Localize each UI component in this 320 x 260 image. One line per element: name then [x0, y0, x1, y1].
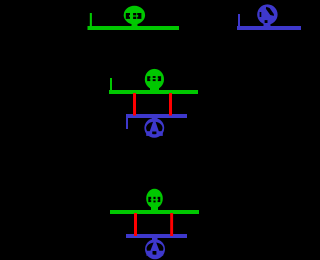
AC source V1 body (green disc)	[124, 6, 145, 25]
wire: left stub of blue rail 4 (downwards)	[126, 118, 128, 130]
wire: left stub of blue rail 2	[238, 14, 240, 26]
V1 glyph: left counter gap	[126, 13, 130, 19]
wire: blue rail 2 horizontal	[237, 26, 301, 30]
I2 ring bottom-right fill	[156, 131, 162, 136]
AC source V2 body (green disc)	[145, 69, 164, 90]
wire: left stub of green rail 1	[90, 13, 92, 27]
V2 glyph: right counter gap	[158, 76, 161, 81]
I3 ring bottom-left fill	[146, 251, 152, 256]
I1 glyph: diagonal gap along arrowhead	[266, 7, 274, 16]
wire: green rail 3 horizontal	[109, 90, 198, 94]
node: stem joining rail 6 to source I3	[152, 238, 158, 242]
I2 glyph: dark core	[146, 122, 162, 134]
resistor R1 (left red link)	[133, 93, 136, 116]
current source I1 body (blue disc)	[257, 4, 277, 24]
current source I2 body (blue disc)	[144, 118, 164, 138]
V1 glyph: upper counter dot	[133, 13, 136, 15]
wire: blue rail 6 horizontal	[126, 234, 187, 238]
node: stem joining source I1 to rail 2	[264, 24, 271, 28]
V1 glyph: lower counter dot	[133, 17, 136, 19]
I3 ring bottom-right fill	[156, 251, 163, 256]
resistor R4 (right red link)	[170, 213, 173, 236]
node: stem joining source V1 to rail 1	[132, 23, 138, 28]
V3 glyph: upper counter dot	[153, 197, 155, 199]
node: stem joining source V3 to rail 5	[151, 206, 158, 212]
I3 arrow head	[150, 242, 159, 251]
V3 glyph: lower counter dot	[153, 201, 155, 203]
V3 glyph: right counter gap	[158, 197, 161, 202]
V1 glyph: right counter gap	[137, 13, 141, 19]
wire: blue rail 4 horizontal	[126, 114, 187, 118]
wire: left stub of green rail 3	[110, 78, 112, 91]
V3 glyph: left counter gap	[148, 197, 151, 202]
I1 glyph: lower shaft gap dot	[265, 20, 268, 23]
I1 glyph: left sliver gap	[260, 12, 262, 17]
I2 arrow head	[150, 121, 159, 131]
resistor R3 (left red link)	[134, 213, 137, 236]
wire: green rail 5 horizontal	[110, 210, 199, 214]
I3 glyph: dark core	[147, 243, 164, 255]
V2 glyph: upper counter dot	[153, 76, 156, 78]
wire: green rail 1 horizontal	[88, 26, 180, 30]
node: stem joining source V2 to rail 3	[150, 87, 159, 92]
V2 glyph: left counter gap	[147, 76, 150, 81]
AC source V3 body (green disc)	[146, 189, 163, 208]
current source I3 body (blue disc)	[145, 239, 165, 259]
node: stem joining rail 4 to source I2	[152, 118, 158, 122]
resistor R2 (right red link)	[169, 93, 172, 116]
I2 ring bottom-left fill	[146, 131, 152, 136]
V2 glyph: lower counter dot	[153, 79, 156, 81]
